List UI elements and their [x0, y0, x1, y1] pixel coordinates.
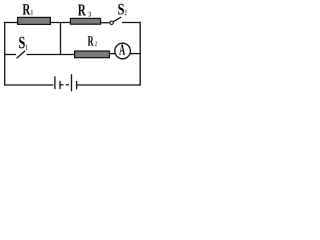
wire node J vertical	[60, 23, 62, 56]
wire left vertical	[4, 22, 6, 86]
label R1 subscript 1	[31, 10, 33, 15]
ammeter A letter	[119, 44, 125, 54]
switch S1 blade	[17, 51, 26, 58]
wire battery to bottom-right	[77, 84, 141, 86]
resistor R2 box	[75, 51, 110, 58]
wire R3 to switch S2	[101, 22, 110, 24]
resistor R1 box	[18, 17, 51, 24]
label R2 subscript 2	[95, 42, 97, 46]
wire top-left horizontal	[4, 22, 18, 24]
label R3	[78, 5, 86, 16]
wire middle-left to S1	[4, 54, 16, 56]
wire R2 to ammeter	[110, 53, 116, 55]
label R3 subscript 3	[89, 12, 91, 17]
battery cell1 stub	[60, 84, 64, 86]
battery cell1 long plate	[54, 76, 56, 89]
wire bottom-left to battery	[4, 84, 53, 86]
battery cell1 short plate	[59, 81, 61, 89]
label S1	[19, 37, 25, 49]
label S2 subscript 2	[125, 10, 127, 15]
label S2	[118, 4, 124, 15]
switch S2 blade	[113, 17, 121, 22]
ammeter A circle	[115, 43, 131, 59]
wire S2 to top-right corner	[122, 22, 141, 24]
battery cell2 long plate	[71, 74, 73, 91]
resistor R3 box	[70, 18, 100, 24]
label S1 subscript 1	[26, 45, 27, 50]
wire S1 to R2	[27, 54, 76, 56]
label R2	[88, 36, 94, 45]
wire R1 to node J	[50, 22, 71, 24]
label R1	[23, 4, 31, 14]
wire ammeter to right vertical	[130, 53, 140, 55]
battery cell2 short plate	[76, 81, 78, 89]
battery connecting dash	[66, 84, 69, 86]
switch S2 pivot circle	[110, 21, 113, 24]
wire right vertical	[139, 22, 141, 86]
